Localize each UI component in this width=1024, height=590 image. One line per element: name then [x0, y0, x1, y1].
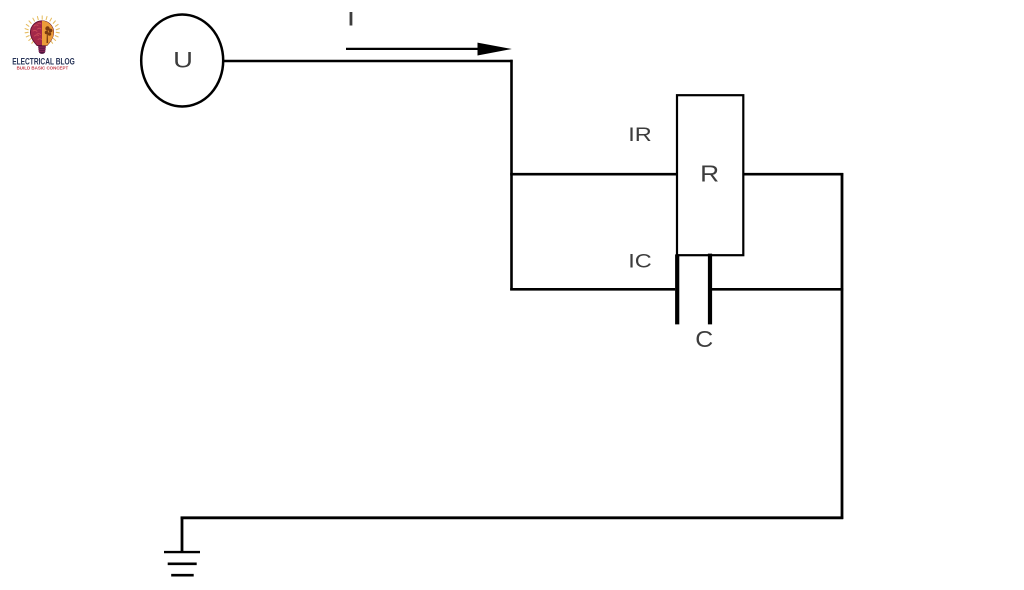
wire left vertical — [510, 60, 513, 291]
svg-text:I: I — [348, 9, 353, 31]
logo bulb base — [38, 45, 46, 54]
current arrow I — [346, 43, 512, 56]
svg-text:IC: IC — [628, 252, 652, 273]
logo bulb rays — [25, 16, 59, 43]
resistor R — [677, 95, 743, 255]
ground — [164, 552, 200, 575]
wire ground stub — [181, 517, 184, 553]
wire to capacitor left plate — [510, 288, 675, 291]
svg-text:BUILD BASIC CONCEPT: BUILD BASIC CONCEPT — [17, 65, 69, 70]
voltage source U — [141, 15, 223, 107]
wire right vertical rail — [841, 173, 844, 519]
wire capacitor right plate to right rail — [712, 288, 843, 291]
svg-text:C: C — [695, 326, 713, 352]
wire resistor right to right rail — [743, 173, 843, 176]
logo tree — [45, 26, 53, 43]
svg-text:IR: IR — [628, 125, 652, 146]
wire to resistor left — [510, 173, 677, 176]
wire U to top corner — [223, 60, 513, 63]
logo Electrical Blog — [12, 16, 75, 70]
logo bulb globe — [30, 21, 53, 46]
logo brain texture — [33, 23, 42, 39]
capacitor C — [677, 254, 710, 325]
svg-text:U: U — [173, 48, 193, 73]
svg-text:R: R — [700, 161, 719, 187]
wire bottom rail — [181, 516, 844, 519]
